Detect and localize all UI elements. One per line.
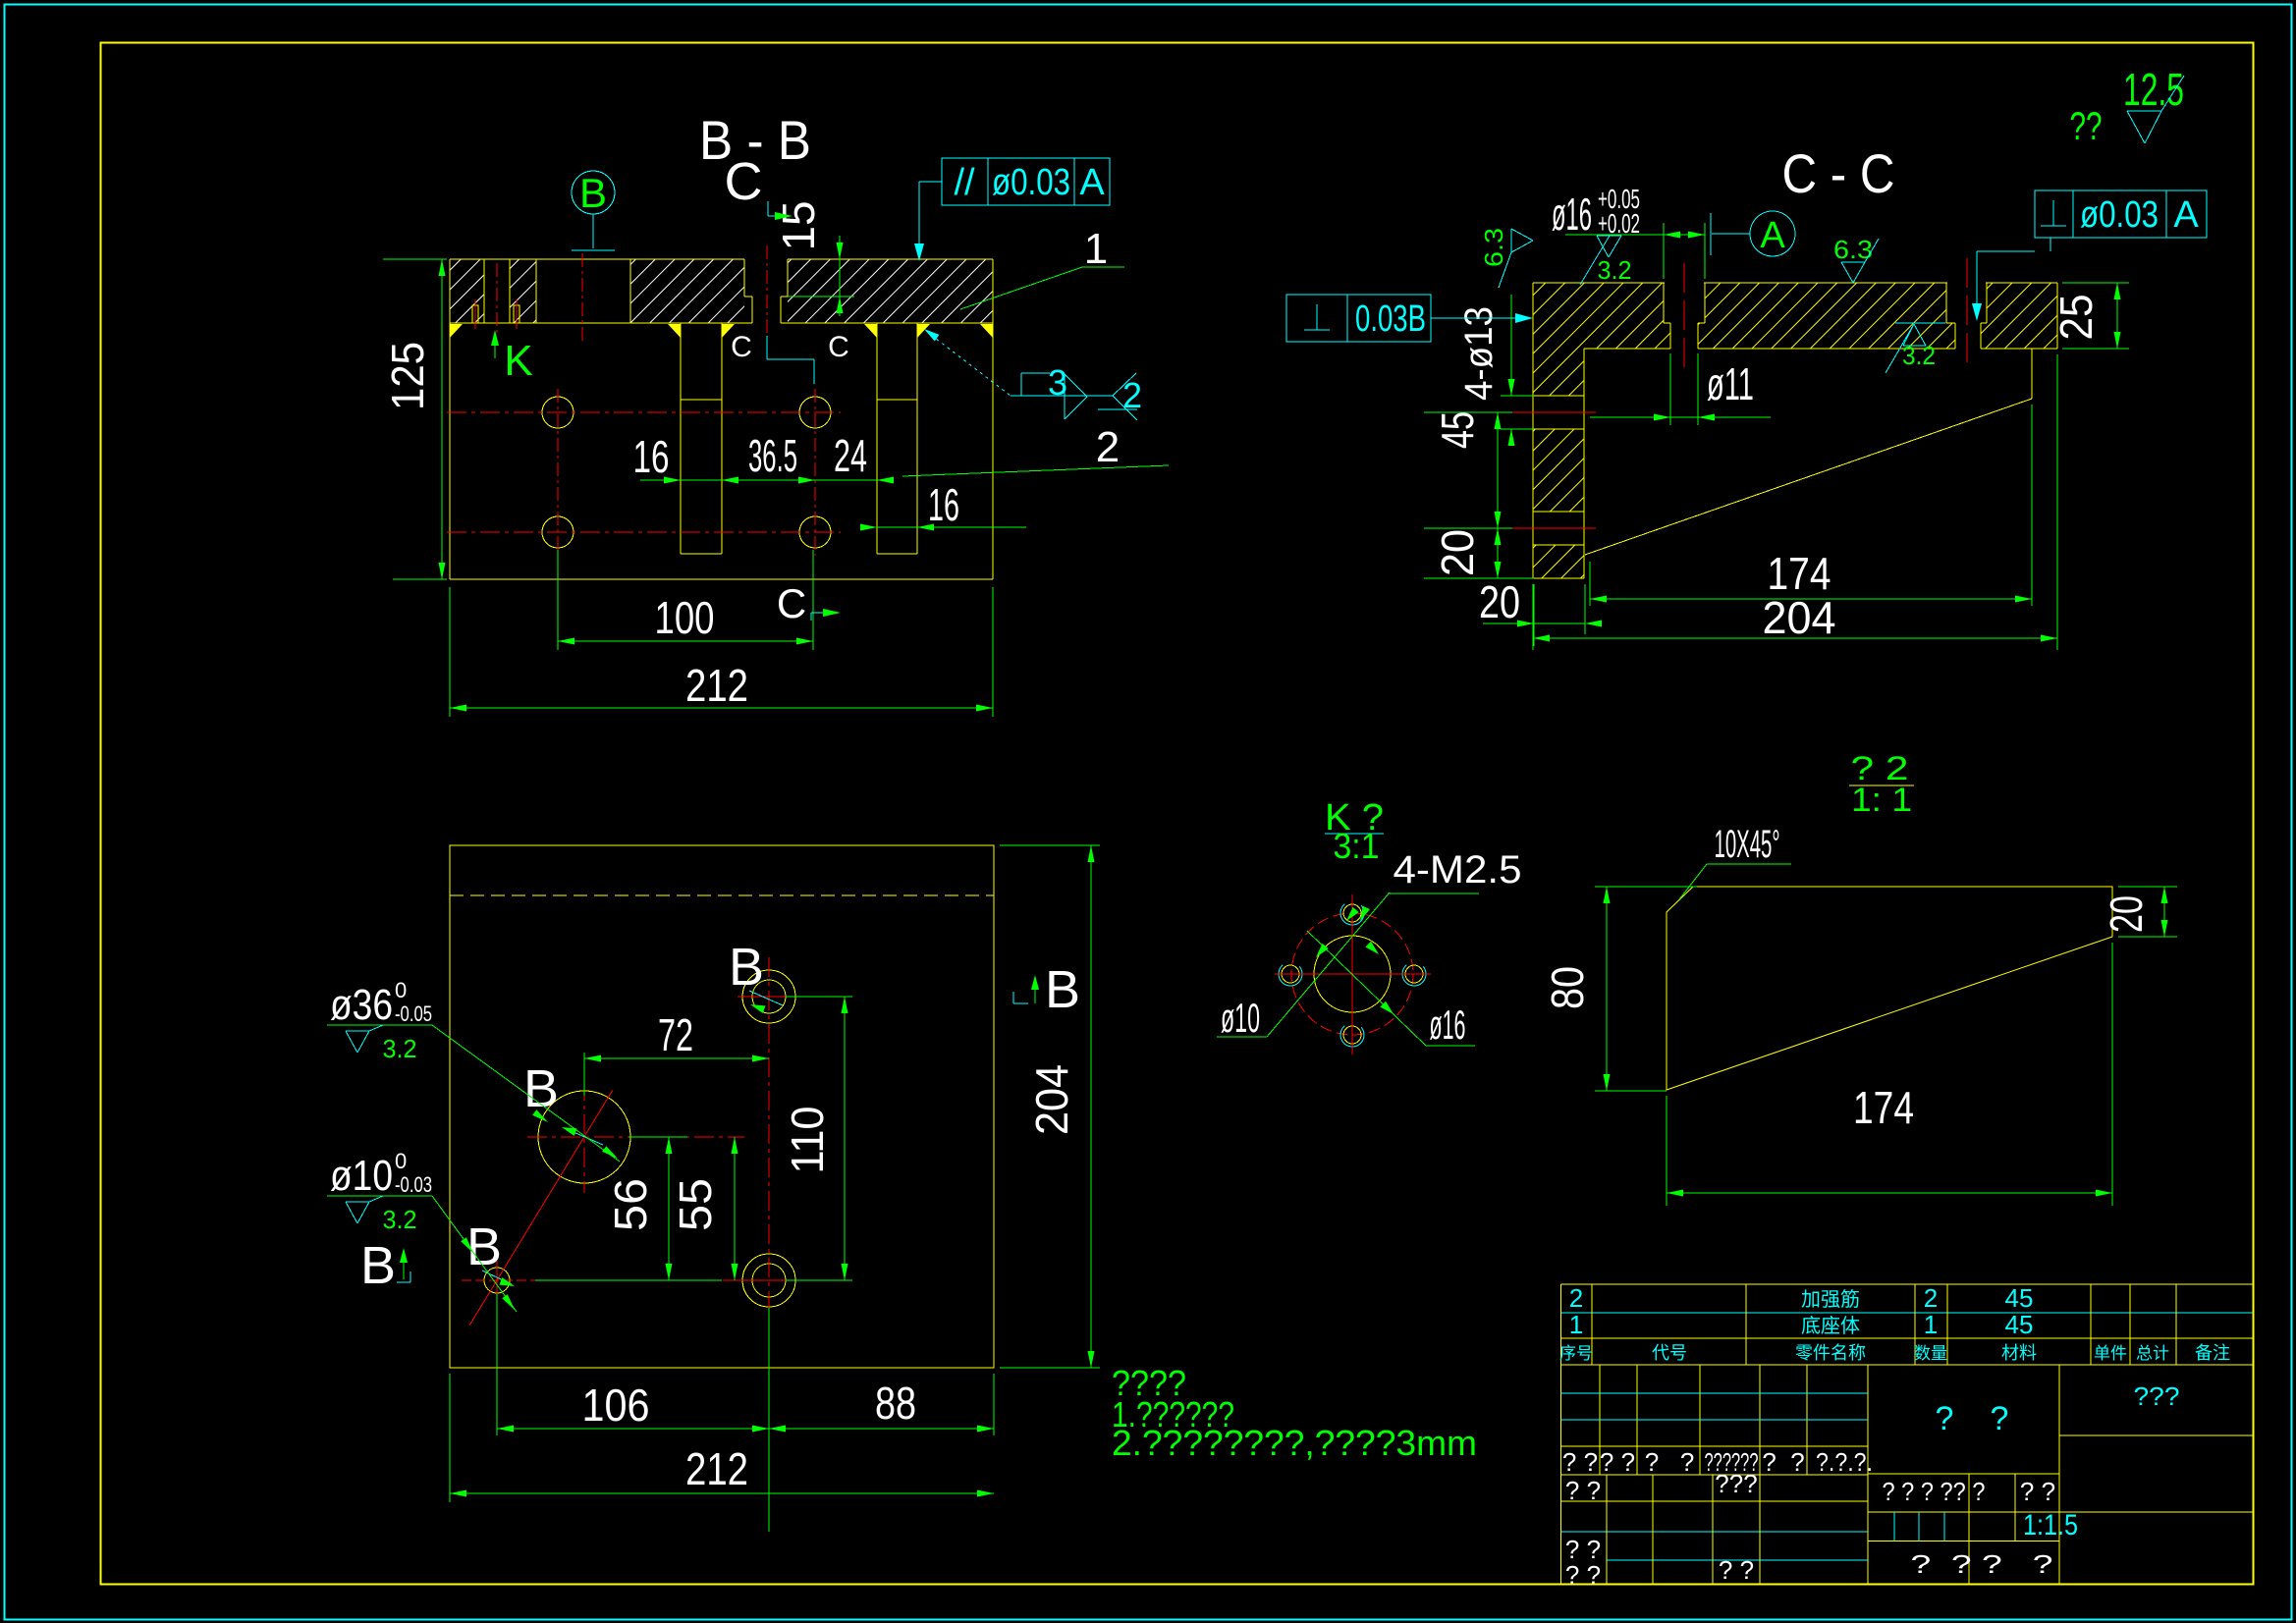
plan view outline xyxy=(450,845,994,1368)
B-B slot corner fillet marks xyxy=(450,324,463,338)
svg-text:20: 20 xyxy=(2101,895,2152,933)
svg-text:?: ? xyxy=(1936,1400,1954,1437)
svg-text://: // xyxy=(954,162,975,203)
svg-text:? ? ? ?: ? ? ? ? xyxy=(1911,1549,2053,1579)
dimension 56 xyxy=(629,1136,687,1138)
svg-text:ø0.03: ø0.03 xyxy=(992,162,1070,203)
svg-text:3.2: 3.2 xyxy=(1902,341,1936,370)
balloon label 1 xyxy=(960,267,1082,309)
svg-text:B: B xyxy=(1045,960,1080,1019)
dimension 212 plan xyxy=(449,1374,451,1502)
svg-text:56: 56 xyxy=(605,1178,656,1231)
svg-text:-0.05: -0.05 xyxy=(395,1001,432,1026)
C-C centerlines xyxy=(1683,263,1685,370)
svg-text:174: 174 xyxy=(1853,1082,1914,1133)
C-C slab hatch xyxy=(1533,283,2057,349)
svg-text:88: 88 xyxy=(875,1378,916,1429)
svg-text:序号: 序号 xyxy=(1559,1344,1593,1363)
svg-text:C: C xyxy=(828,331,849,363)
svg-text:C: C xyxy=(731,331,752,363)
dimension phi16 +0.05+0.02 xyxy=(1663,223,1665,279)
section B marker bottom left xyxy=(397,1281,410,1283)
section line C-C jog xyxy=(766,336,768,359)
GDT parallelism frame xyxy=(942,158,1110,205)
svg-text:? ?: ? ? xyxy=(2020,1477,2055,1506)
svg-text:3:1: 3:1 xyxy=(1334,826,1380,866)
K detail phi16 leader xyxy=(1307,931,1426,1046)
svg-text:?.?.?.: ?.?.?. xyxy=(1816,1447,1873,1477)
surface finish note 3-2 xyxy=(924,329,939,342)
C-C rib xyxy=(2031,349,2033,399)
svg-text:ø11: ø11 xyxy=(1707,358,1754,409)
svg-text:零件名称: 零件名称 xyxy=(1795,1343,1866,1363)
dimension 100 xyxy=(557,550,559,650)
datum B flag xyxy=(572,171,615,214)
svg-text:20: 20 xyxy=(1432,529,1483,576)
C-C notch top openings xyxy=(1665,281,1704,284)
svg-text:+0.02: +0.02 xyxy=(1598,208,1640,239)
dimension 20 leg width xyxy=(1533,584,1535,646)
C-C leg hatch and holes xyxy=(1533,349,1584,396)
svg-text:212: 212 xyxy=(685,660,748,711)
svg-text:1: 1 xyxy=(1084,225,1108,273)
svg-text:材料: 材料 xyxy=(2001,1343,2037,1363)
svg-text:底座体: 底座体 xyxy=(1801,1315,1860,1337)
dimension 20 vertical xyxy=(1497,528,1499,578)
svg-text:K: K xyxy=(504,337,532,385)
svg-text:B: B xyxy=(523,1059,559,1118)
dimensions 106 and 88 xyxy=(496,1294,498,1435)
dimension 174 part2 xyxy=(1666,1096,1667,1206)
svg-text:? ?: ? ? xyxy=(1719,1555,1754,1585)
svg-text:B: B xyxy=(579,170,607,216)
svg-text:1:1.5: 1:1.5 xyxy=(2023,1509,2078,1542)
datum A flag xyxy=(1750,211,1795,256)
dimension 212 B-B xyxy=(449,587,451,717)
dimension 204 plan xyxy=(1000,844,1100,846)
svg-text:加强筋: 加强筋 xyxy=(1801,1288,1860,1311)
B-B M2.5 tapped holes xyxy=(472,305,478,323)
svg-text:???: ??? xyxy=(1715,1469,1757,1498)
svg-text:2: 2 xyxy=(1924,1283,1938,1313)
svg-text:备注: 备注 xyxy=(2195,1343,2230,1363)
dimension 72 xyxy=(583,1053,585,1096)
svg-text:204: 204 xyxy=(1026,1064,1077,1135)
svg-text:106: 106 xyxy=(582,1380,650,1431)
parts list grid xyxy=(1561,1283,2254,1285)
C-C outline xyxy=(1533,282,2057,284)
svg-text:1: 1: 1: 1 xyxy=(1851,782,1912,819)
svg-text:A: A xyxy=(1760,215,1785,256)
svg-text:3.2: 3.2 xyxy=(383,1205,417,1234)
svg-text:110: 110 xyxy=(782,1107,833,1174)
svg-text:总计: 总计 xyxy=(2136,1344,2169,1363)
B-B hatched slab xyxy=(450,259,484,323)
svg-text:100: 100 xyxy=(655,592,715,643)
svg-text:A: A xyxy=(2173,194,2199,236)
svg-text:16: 16 xyxy=(633,431,670,482)
K view arrow xyxy=(494,336,496,358)
plan holes xyxy=(538,1091,630,1183)
svg-text:212: 212 xyxy=(685,1443,748,1494)
svg-text:4-M2.5: 4-M2.5 xyxy=(1394,848,1522,892)
svg-text:3.2: 3.2 xyxy=(383,1034,417,1063)
svg-text:24: 24 xyxy=(834,430,867,481)
dimension 25 xyxy=(2062,282,2129,284)
K detail M2.5 holes xyxy=(1343,904,1361,922)
plan section B jogs xyxy=(567,1129,603,1145)
dimension 45 xyxy=(1424,411,1512,413)
dimension 20 part2 xyxy=(2118,886,2177,888)
dimension 55 xyxy=(734,1137,736,1280)
B-B hole centerlines xyxy=(447,411,841,413)
dimension 125 xyxy=(383,258,447,260)
svg-text:单件: 单件 xyxy=(2094,1344,2127,1363)
dimension 4-phi13 xyxy=(1501,395,1534,397)
svg-text:-0.03: -0.03 xyxy=(395,1172,432,1197)
svg-text:15: 15 xyxy=(773,201,824,251)
svg-text:0: 0 xyxy=(395,1149,407,1173)
svg-text:A: A xyxy=(1079,162,1105,203)
part 2 wedge outline xyxy=(1667,887,2112,1090)
svg-text:ø0.03: ø0.03 xyxy=(2080,194,2159,236)
svg-text:B: B xyxy=(729,938,764,997)
svg-text:ø16: ø16 xyxy=(1430,1001,1466,1048)
K detail phi10 leader xyxy=(1267,893,1390,1037)
svg-text:???: ??? xyxy=(2134,1381,2180,1411)
svg-text:? ?: ? ? xyxy=(1762,1447,1804,1477)
svg-text:?: ? xyxy=(1991,1400,2009,1437)
dimension phi11 xyxy=(1669,353,1671,425)
svg-text:4-ø13: 4-ø13 xyxy=(1457,306,1501,401)
svg-text:代号: 代号 xyxy=(1652,1343,1687,1363)
C-C counterbores xyxy=(1663,283,1665,323)
svg-text:C: C xyxy=(777,580,806,626)
surface 3.2 right counterbore xyxy=(1895,322,1945,324)
svg-text:C: C xyxy=(725,152,763,211)
svg-text:数量: 数量 xyxy=(1914,1344,1947,1363)
svg-text:2.????????,????3mm: 2.????????,????3mm xyxy=(1112,1423,1477,1463)
svg-text:72: 72 xyxy=(658,1009,693,1060)
dimension 80 xyxy=(1595,886,1697,888)
svg-text:0: 0 xyxy=(395,978,407,1002)
title block grid xyxy=(1561,1583,2254,1585)
svg-text:125: 125 xyxy=(382,342,433,410)
balloon label 2 xyxy=(902,465,1169,476)
B-B 4-d13 hole circles xyxy=(542,397,574,428)
svg-text:ø10: ø10 xyxy=(1221,995,1260,1041)
svg-text:? ?: ? ? xyxy=(1645,1447,1695,1477)
B-B slots xyxy=(680,323,682,554)
svg-text:? ?: ? ? xyxy=(1562,1447,1598,1477)
svg-text:? ?: ? ? xyxy=(1600,1447,1635,1477)
svg-text:25: 25 xyxy=(2050,295,2102,341)
svg-text:16: 16 xyxy=(928,479,959,530)
svg-text:45: 45 xyxy=(2005,1310,2034,1339)
dimensions 16 36.5 24 xyxy=(640,479,889,481)
dimension 16 right slot xyxy=(877,526,1026,528)
svg-text:ø10: ø10 xyxy=(330,1152,393,1200)
section B marker right xyxy=(1013,1002,1028,1004)
svg-text:? ? ? ?? ?: ? ? ? ?? ? xyxy=(1883,1477,1986,1506)
svg-text:ø36: ø36 xyxy=(330,981,393,1029)
svg-text:??: ?? xyxy=(2070,105,2103,148)
svg-text:3.2: 3.2 xyxy=(1598,255,1632,285)
B-B slab centerlines xyxy=(496,263,498,336)
B-B counterbore hole xyxy=(743,259,745,297)
svg-text:6.3: 6.3 xyxy=(1479,228,1508,267)
svg-text:55: 55 xyxy=(670,1178,721,1231)
B-B body outline xyxy=(450,258,744,260)
dimension 110 xyxy=(786,996,852,998)
plan centerlines xyxy=(527,1136,744,1138)
svg-text:2: 2 xyxy=(1096,423,1120,471)
svg-text:20: 20 xyxy=(1479,576,1520,627)
svg-text:? ?: ? ? xyxy=(1565,1560,1601,1590)
svg-text:B: B xyxy=(360,1236,396,1295)
dimension 174 C-C xyxy=(2031,405,2033,606)
dimension 15 xyxy=(788,296,854,298)
surface 3.2 at phi16 xyxy=(1597,235,1621,237)
svg-text:10X45°: 10X45° xyxy=(1715,823,1780,866)
K detail circles xyxy=(1314,936,1391,1012)
K detail centerlines xyxy=(1275,973,1431,975)
svg-text:204: 204 xyxy=(1763,592,1836,643)
svg-text:1: 1 xyxy=(1569,1310,1583,1339)
svg-text:? ?: ? ? xyxy=(1565,1476,1601,1505)
svg-text:1: 1 xyxy=(1924,1310,1938,1339)
svg-text:2: 2 xyxy=(1569,1283,1583,1313)
svg-text:80: 80 xyxy=(1542,966,1593,1009)
svg-text:ø16: ø16 xyxy=(1552,189,1592,240)
dimension 204 C-C xyxy=(2056,354,2058,650)
svg-text:C - C: C - C xyxy=(1782,142,1895,204)
svg-text:0.03B: 0.03B xyxy=(1355,298,1426,340)
svg-text:45: 45 xyxy=(1432,411,1483,449)
svg-text:36.5: 36.5 xyxy=(748,430,797,481)
svg-text:45: 45 xyxy=(2005,1283,2034,1313)
GDT perpendicularity phi0.03 A xyxy=(2035,190,2207,238)
GDT perpendicularity 0.03 B xyxy=(1286,295,1431,342)
